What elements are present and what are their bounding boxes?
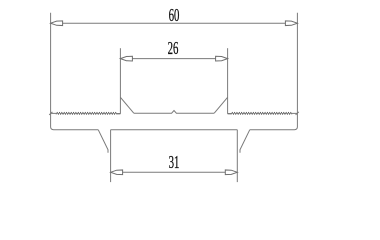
svg-text:60: 60: [169, 5, 180, 25]
dimension line 26: [120, 58, 227, 60]
knurl run-out left (flat at groove wall): [117, 113, 121, 115]
knurl serration right: [231, 112, 292, 114]
part outline: top plate right edge with rounded bottom-right corner: [250, 13, 298, 130]
arrowhead 31 left: [111, 170, 123, 175]
knurl serration left: [56, 112, 117, 114]
groove right chamfer: [214, 97, 227, 113]
groove right wall: [227, 48, 229, 113]
arrowhead 31 right: [225, 170, 237, 175]
knurl baseline left start segment with tick: [49, 112, 56, 115]
svg-text:31: 31: [169, 152, 180, 172]
dimension line 31: [111, 171, 238, 173]
extension line 31 right / bottom block right edge: [236, 130, 238, 182]
dimension line 60: [51, 22, 298, 24]
knurl run-out right (flat at groove wall): [228, 113, 232, 115]
arrowhead 26 right: [216, 56, 228, 61]
left tab: chamfer diagonal and tip: [98, 130, 108, 153]
right tab: chamfer diagonal and tip: [240, 130, 250, 153]
arrowhead 26 left: [120, 56, 132, 61]
knurl baseline right end segment with tick: [292, 112, 299, 115]
arrowhead 60 right: [285, 21, 297, 26]
part outline: top plate left edge with rounded bottom-left corner: [51, 13, 99, 130]
groove left chamfer: [120, 97, 133, 113]
groove floor with centre notch: [134, 111, 214, 114]
wire: bottom face between tabs: [111, 129, 238, 131]
extension line 31 left / bottom block left edge: [110, 130, 112, 182]
arrowhead 60 left: [51, 21, 63, 26]
groove left wall: [119, 48, 121, 113]
svg-text:26: 26: [168, 38, 179, 58]
